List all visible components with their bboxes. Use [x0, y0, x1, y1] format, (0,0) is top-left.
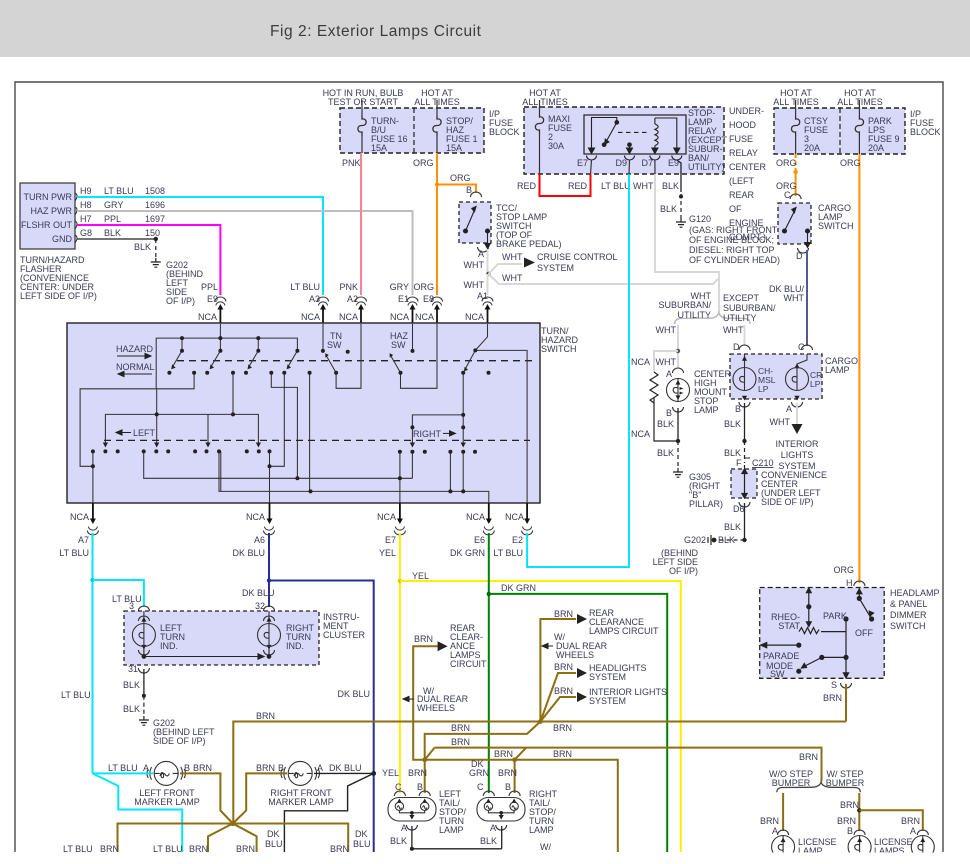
wire BLK pin31 to G202: [143, 669, 145, 696]
svg-text:PARK: PARK: [823, 611, 847, 621]
svg-text:BLK: BLK: [657, 448, 674, 458]
lower dashed bars: [104, 439, 530, 441]
ground tap G202: [708, 535, 716, 545]
svg-text:BRN: BRN: [408, 768, 427, 778]
svg-text:NCA: NCA: [390, 312, 409, 322]
top pin connectors: [215, 297, 226, 306]
node chmsl gnd: [676, 439, 680, 443]
svg-text:BRN: BRN: [256, 763, 275, 773]
lamp LICENSE LAMPS (w/ step) right: [917, 830, 928, 835]
wire LT BLU H9 to A3: [77, 197, 323, 295]
svg-text:BLK: BLK: [724, 522, 741, 532]
HAZ SW assembly: [412, 324, 414, 351]
wire BRN row4: [425, 760, 618, 852]
svg-text:BLOCK: BLOCK: [910, 127, 941, 137]
left rear clearance tap: [413, 646, 437, 760]
svg-text:GRN: GRN: [469, 768, 489, 778]
wire DK BLU branch right and down: [269, 581, 374, 853]
svg-text:SYSTEM: SYSTEM: [589, 672, 626, 682]
svg-text:PNK: PNK: [339, 282, 358, 292]
wire LT BLU to cluster pin 3: [93, 580, 144, 607]
wire BRN star right: [233, 824, 348, 853]
svg-text:TURN PWR: TURN PWR: [24, 192, 73, 202]
hazard contact dashed bar: [177, 360, 537, 362]
node WHT junction: [486, 272, 490, 276]
svg-text:H: H: [846, 578, 853, 588]
svg-text:BRN: BRN: [498, 768, 517, 778]
svg-text:NCA: NCA: [246, 512, 265, 522]
wire BLK G8: [77, 238, 156, 240]
split brace WHT suburban/utility: [675, 313, 750, 324]
svg-text:BLK: BLK: [134, 242, 151, 252]
svg-text:C210: C210: [752, 458, 774, 468]
svg-text:BRN: BRN: [823, 693, 842, 703]
wire WHT TCC-A down: [487, 249, 489, 274]
svg-text:ORG: ORG: [833, 565, 854, 575]
wire BRN fan up to rear clearance arrow: [540, 619, 576, 722]
svg-text:UNDER-: UNDER-: [729, 106, 764, 116]
wire BLK right tail A down: [501, 826, 503, 849]
svg-text:F: F: [736, 458, 742, 468]
svg-text:BRN: BRN: [554, 609, 573, 619]
svg-text:WHT: WHT: [784, 293, 805, 303]
svg-text:YEL: YEL: [412, 571, 429, 581]
svg-text:FUSE: FUSE: [729, 134, 753, 144]
svg-text:E6: E6: [474, 535, 485, 545]
svg-text:BRN: BRN: [494, 749, 513, 759]
svg-text:LT BLU: LT BLU: [104, 186, 134, 196]
lamp LICENSE LAMPS (w/ step) left: [854, 830, 865, 835]
wire DK GRN E6 down: [488, 533, 490, 793]
svg-text:BRN: BRN: [901, 816, 920, 826]
svg-text:1508: 1508: [145, 186, 165, 196]
svg-text:D7: D7: [641, 158, 653, 168]
wire DK BLU right marker A to junction: [314, 772, 374, 774]
svg-text:SW: SW: [391, 340, 406, 350]
svg-text:PPL: PPL: [104, 214, 121, 224]
lamp LICENSE LAMP (w/o step): [778, 830, 789, 835]
wire BRN fan to headlights arrow: [540, 673, 576, 722]
wire DK BLU A6 down: [268, 533, 270, 607]
svg-text:LT BLU: LT BLU: [601, 181, 631, 191]
svg-text:IND.: IND.: [160, 641, 178, 651]
svg-text:BLU: BLU: [353, 839, 371, 849]
svg-text:BLK: BLK: [660, 204, 677, 214]
svg-text:D6: D6: [733, 504, 745, 514]
fuse CTSY FUSE 3: [795, 100, 797, 116]
svg-text:WHT: WHT: [502, 252, 523, 262]
svg-text:LEFT SIDE OF I/P): LEFT SIDE OF I/P): [20, 291, 97, 301]
svg-text:HAZ PWR: HAZ PWR: [31, 206, 73, 216]
wire BRN left marker B to star: [180, 773, 233, 823]
rheostat arrow line: [808, 590, 810, 624]
svg-text:WHT: WHT: [464, 260, 485, 270]
svg-text:E2: E2: [512, 535, 523, 545]
wire dropper contact4: [309, 373, 311, 492]
svg-text:LEFT: LEFT: [133, 428, 156, 438]
svg-text:B: B: [505, 782, 511, 792]
svg-text:LIGHTS: LIGHTS: [781, 450, 814, 460]
lower wiper: [822, 656, 846, 658]
svg-text:WHEELS: WHEELS: [556, 650, 594, 660]
RIGHT rail: [412, 415, 463, 446]
wire BRN to right tail B: [514, 760, 516, 793]
svg-text:ORG: ORG: [840, 158, 861, 168]
switch internals: [80, 324, 527, 503]
svg-text:DIESEL: RIGHT TOP: DIESEL: RIGHT TOP: [689, 245, 775, 255]
wire ORG branch to TCC B: [437, 185, 476, 194]
svg-text:OF: OF: [729, 204, 742, 214]
wire BLK relay E9 to G120: [677, 160, 681, 192]
svg-text:A: A: [401, 823, 407, 833]
svg-text:W/: W/: [540, 842, 551, 852]
svg-text:20A: 20A: [868, 143, 884, 153]
svg-text:15A: 15A: [371, 143, 387, 153]
svg-text:BRN: BRN: [837, 816, 856, 826]
svg-text:WHT: WHT: [656, 325, 677, 335]
ground G305: [673, 468, 683, 477]
wire ORG fuse1 down: [436, 153, 438, 295]
fuse MAXI FUSE 2: [539, 100, 541, 114]
svg-text:WHT: WHT: [464, 280, 485, 290]
wire WHT cargo A to interior lights: [796, 403, 798, 427]
svg-text:S: S: [831, 680, 837, 690]
svg-text:BLK: BLK: [662, 181, 679, 191]
svg-text:LAMP: LAMP: [694, 405, 719, 415]
svg-text:(GAS: RIGHT FRONT: (GAS: RIGHT FRONT: [689, 225, 778, 235]
svg-text:BLK: BLK: [718, 535, 735, 545]
svg-text:B: B: [278, 763, 284, 773]
svg-text:EXCEPT: EXCEPT: [723, 293, 760, 303]
svg-text:LT BLU: LT BLU: [290, 282, 320, 292]
svg-text:D: D: [796, 251, 803, 261]
wire BLK chmsl B down: [677, 408, 679, 441]
svg-text:NCA: NCA: [198, 312, 217, 322]
parade mode sw: [764, 644, 799, 646]
svg-text:GRY: GRY: [390, 282, 409, 292]
wire WHT right branch down to cargo lamp D: [744, 325, 746, 346]
svg-text:B: B: [666, 408, 672, 418]
svg-text:BLK: BLK: [724, 419, 741, 429]
svg-text:3: 3: [129, 601, 134, 611]
svg-text:HEADLAMP: HEADLAMP: [890, 588, 940, 598]
svg-text:A6: A6: [254, 535, 265, 545]
wire BLK cargo B down: [744, 403, 746, 441]
wire BRN dimmer S down to main brn bus: [845, 684, 847, 722]
svg-text:SWITCH: SWITCH: [890, 621, 926, 631]
svg-text:RELAY: RELAY: [729, 148, 758, 158]
svg-text:A: A: [490, 823, 496, 833]
node G8-gnd: [154, 237, 158, 241]
stop lamp relay U1: [584, 115, 686, 154]
lamp RIGHT TURN IND: [268, 611, 270, 624]
svg-text:B: B: [184, 763, 190, 773]
wire BRN right marker B to star: [233, 773, 287, 823]
lower contact drops: [92, 451, 94, 503]
wire BRN w/o step bumper to license lamp A: [782, 793, 784, 831]
wire BRN star left: [118, 824, 233, 853]
svg-text:SYSTEM: SYSTEM: [537, 263, 574, 273]
svg-text:LT BLU: LT BLU: [112, 594, 142, 604]
ground G202 cluster: [139, 716, 149, 725]
svg-text:Fig 2: Exterior Lamps Circuit: Fig 2: Exterior Lamps Circuit: [270, 23, 482, 40]
svg-text:LT BLU: LT BLU: [493, 548, 523, 558]
lamp CH-MSL LP: [744, 354, 746, 368]
node chmsl top: [676, 349, 680, 353]
wire ORG park lps fuse down to dimmer: [858, 154, 860, 583]
svg-text:BRN: BRN: [553, 723, 572, 733]
lamp LEFT TURN IND: [143, 611, 145, 624]
svg-text:B: B: [847, 826, 853, 836]
wire hazard feed bus: [156, 338, 297, 389]
PARK contact: [844, 617, 848, 621]
wire YEL branch right and down: [400, 581, 681, 852]
svg-text:SIDE OF I/P): SIDE OF I/P): [153, 736, 206, 746]
lower wiper arrowheads: [103, 443, 466, 448]
svg-text:UTILITY): UTILITY): [688, 162, 725, 172]
svg-text:BRN: BRN: [554, 686, 573, 696]
svg-text:DK GRN: DK GRN: [450, 548, 485, 558]
svg-text:DK BLU: DK BLU: [242, 588, 275, 598]
lamp RIGHT FRONT MARKER: [281, 761, 320, 785]
node E7 branch: [398, 579, 402, 583]
wire WHT to cruise control: [489, 264, 523, 274]
svg-text:1696: 1696: [145, 200, 165, 210]
svg-text:BRN: BRN: [760, 816, 779, 826]
svg-text:BLK: BLK: [480, 836, 497, 846]
rheostat resistor: [799, 628, 846, 634]
svg-text:WHT: WHT: [723, 325, 744, 335]
svg-text:20A: 20A: [804, 143, 820, 153]
svg-text:YEL: YEL: [382, 768, 399, 778]
cluster internal wire: [142, 646, 271, 659]
wire dropper contact pair2: [232, 373, 234, 415]
svg-text:ORG: ORG: [413, 282, 434, 292]
resistor (chmsl shunt): [650, 372, 658, 403]
node A6 branch: [267, 578, 271, 582]
svg-text:SWITCH: SWITCH: [541, 344, 577, 354]
lower contact dots: [91, 412, 477, 493]
svg-text:NCA: NCA: [339, 312, 358, 322]
svg-text:LP: LP: [810, 379, 821, 389]
svg-text:BLK: BLK: [724, 448, 741, 458]
bottom pin stubs out of block: [93, 503, 527, 522]
svg-text:G120: G120: [689, 214, 711, 224]
star junction: [230, 821, 235, 826]
svg-text:BRN: BRN: [553, 749, 572, 759]
svg-text:D: D: [733, 342, 740, 352]
svg-text:OF I/P): OF I/P): [166, 296, 195, 306]
svg-text:SYSTEM: SYSTEM: [589, 696, 626, 706]
svg-text:NCA: NCA: [465, 312, 484, 322]
svg-text:NCA: NCA: [505, 512, 524, 522]
svg-text:GRY: GRY: [104, 200, 123, 210]
svg-text:NCA: NCA: [631, 429, 650, 439]
svg-text:BLOCK: BLOCK: [489, 127, 520, 137]
svg-text:A7: A7: [78, 535, 89, 545]
node row4-right: [512, 757, 517, 762]
svg-text:E7: E7: [577, 158, 588, 168]
cargo lamp bottom pins: [739, 402, 750, 407]
svg-text:UTILITY: UTILITY: [723, 313, 757, 323]
LEFT rail: [105, 414, 258, 446]
svg-text:ALL TIMES: ALL TIMES: [522, 97, 568, 107]
TN SW assembly: [322, 324, 324, 351]
arrow interior lights: [792, 424, 803, 434]
wire DK GRN branch right and down: [489, 594, 667, 852]
wire LT BLU relay D9 down to E2 route: [628, 174, 630, 567]
bottom white mask: [0, 853, 970, 864]
svg-text:BRN: BRN: [256, 711, 275, 721]
ground G202: [151, 258, 161, 267]
node A7 branch: [90, 578, 94, 582]
svg-text:SWITCH: SWITCH: [818, 221, 854, 231]
convenience center box: [731, 469, 757, 498]
svg-text:150: 150: [145, 228, 160, 238]
H wiper to OFF: [858, 588, 860, 599]
svg-text:H8: H8: [80, 200, 92, 210]
fuse TURN-B/U FUSE 16: [361, 100, 363, 116]
wire BRN main bus: [233, 722, 846, 824]
svg-text:C: C: [798, 342, 805, 352]
svg-text:NCA: NCA: [466, 512, 485, 522]
wire contact3-left dropper: [270, 373, 285, 467]
wire WHT relay D7 down: [655, 174, 719, 313]
svg-text:BRN: BRN: [414, 634, 433, 644]
wire PPL H7 to E9: [77, 225, 220, 295]
svg-text:NCA: NCA: [415, 312, 434, 322]
step bumper brace split: [777, 782, 861, 792]
svg-text:SW: SW: [327, 340, 342, 350]
svg-text:WHT: WHT: [502, 273, 523, 283]
wire U-trace contact3: [271, 373, 297, 479]
wire BLK D6 down: [744, 503, 746, 540]
svg-text:DK: DK: [267, 829, 280, 839]
svg-text:E9: E9: [668, 158, 679, 168]
svg-text:LAMP: LAMP: [825, 365, 850, 375]
svg-text:SUBURBAN/: SUBURBAN/: [723, 303, 776, 313]
svg-text:BUMPER: BUMPER: [826, 778, 865, 788]
svg-text:DK BLU: DK BLU: [232, 548, 265, 558]
ground G120: [676, 218, 686, 227]
turn/hazard switch block: [67, 323, 540, 503]
svg-text:ORG: ORG: [413, 158, 434, 168]
svg-text:A: A: [143, 763, 149, 773]
svg-text:BRAKE PEDAL): BRAKE PEDAL): [496, 239, 562, 249]
I/P fuse block box: [340, 108, 484, 153]
wire WHT down to A1: [487, 274, 489, 295]
svg-text:BLU: BLU: [265, 839, 283, 849]
svg-text:CLUSTER: CLUSTER: [323, 630, 366, 640]
svg-text:BLK: BLK: [123, 704, 140, 714]
svg-text:GND: GND: [52, 234, 73, 244]
svg-text:HOOD: HOOD: [729, 120, 757, 130]
svg-text:30A: 30A: [548, 141, 564, 151]
svg-text:15A: 15A: [446, 143, 462, 153]
svg-text:STAT: STAT: [778, 621, 800, 631]
svg-text:BRN: BRN: [840, 800, 859, 810]
top pin stubs into block: [220, 306, 487, 324]
svg-text:LT BLU: LT BLU: [59, 548, 89, 558]
wire BRN w/ step bumper down: [858, 793, 860, 831]
svg-text:(LEFT: (LEFT: [729, 176, 755, 186]
svg-text:E7: E7: [385, 535, 396, 545]
svg-text:B: B: [735, 404, 741, 414]
svg-text:BRN: BRN: [451, 723, 470, 733]
svg-text:WHT: WHT: [770, 417, 791, 427]
svg-text:H7: H7: [80, 214, 92, 224]
bottom pin connectors: [87, 527, 98, 536]
I/P fuse block right box: [774, 108, 905, 154]
wire DK BLU/WHT cargo switch D to cargo lamp C: [806, 250, 808, 346]
svg-text:BRN: BRN: [451, 737, 470, 747]
wire BLK dashed to G202: [155, 239, 157, 258]
svg-text:DK GRN: DK GRN: [501, 583, 536, 593]
svg-text:PILLAR): PILLAR): [689, 499, 723, 509]
node E6 branch: [487, 592, 491, 596]
svg-text:& PANEL: & PANEL: [890, 599, 927, 609]
svg-text:TEST OR START: TEST OR START: [328, 97, 399, 107]
svg-text:B: B: [417, 782, 423, 792]
cargo lamp box: [730, 354, 822, 399]
svg-text:PPL: PPL: [201, 282, 218, 292]
svg-text:BLK: BLK: [104, 228, 121, 238]
node row4-left: [422, 757, 427, 762]
svg-text:SW: SW: [770, 669, 785, 679]
svg-text:ORG: ORG: [776, 158, 797, 168]
svg-text:LAMP: LAMP: [439, 825, 464, 835]
svg-text:OF ENGINE BLOCK;: OF ENGINE BLOCK;: [689, 235, 774, 245]
svg-text:SUBURBAN/: SUBURBAN/: [658, 300, 711, 310]
node dk blu marker junction: [371, 771, 376, 776]
svg-text:YEL: YEL: [379, 548, 396, 558]
wire BRN branch to far right license lamp: [859, 810, 923, 831]
svg-text:OF I/P): OF I/P): [669, 566, 698, 576]
wire LT BLU S-route down: [93, 773, 183, 852]
svg-text:FLSHR OUT: FLSHR OUT: [21, 220, 73, 230]
svg-text:LAMPS CIRCUIT: LAMPS CIRCUIT: [589, 626, 659, 636]
svg-text:LP: LP: [758, 384, 769, 394]
svg-text:CRUISE CONTROL: CRUISE CONTROL: [537, 252, 618, 262]
hazard wipers: [173, 351, 182, 366]
svg-text:A: A: [317, 763, 323, 773]
turn/hazard flasher box: [20, 183, 75, 249]
svg-text:BUMPER: BUMPER: [772, 778, 811, 788]
svg-text:PNK: PNK: [342, 158, 361, 168]
wire to resistor: [654, 351, 678, 372]
arrow cruise control: [524, 258, 535, 268]
svg-text:B: B: [466, 185, 472, 195]
fuse STOP/HAZ FUSE 1: [436, 100, 438, 116]
svg-text:CIRCUIT: CIRCUIT: [450, 659, 487, 669]
svg-text:ORG: ORG: [450, 173, 471, 183]
svg-text:WHT: WHT: [656, 357, 677, 367]
svg-text:DK BLU: DK BLU: [337, 689, 370, 699]
svg-text:LAMP: LAMP: [529, 825, 554, 835]
svg-text:RIGHT: RIGHT: [413, 429, 442, 439]
svg-text:C: C: [395, 782, 402, 792]
svg-text:RED: RED: [568, 181, 588, 191]
svg-text:WHT: WHT: [633, 181, 654, 191]
svg-text:NORMAL: NORMAL: [116, 362, 155, 372]
svg-text:INTERIOR: INTERIOR: [775, 439, 819, 449]
wire WHT left branch down: [677, 325, 679, 368]
svg-text:MARKER LAMP: MARKER LAMP: [134, 797, 200, 807]
contact dots top rows: [167, 336, 490, 375]
wire GRY H8 to E1: [77, 211, 413, 295]
wire DK BLU jog down-left: [284, 773, 373, 852]
node fan junction: [538, 719, 543, 724]
